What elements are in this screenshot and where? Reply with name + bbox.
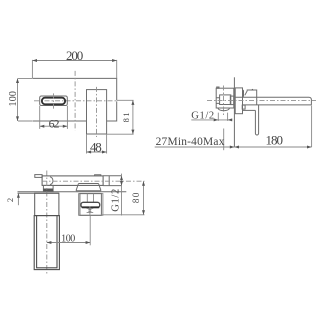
top view: valve body tube: [42, 176, 103, 186]
dimension 180: extension line at spout tip: [311, 105, 313, 147]
front view: vertical center line: [74, 71, 76, 131]
front view: handle body rectangle: [87, 90, 107, 134]
svg-text:100: 100: [61, 233, 75, 244]
dimension 81: dimension line: [132, 100, 134, 134]
top view: outlet mini dimension arrows: [89, 207, 91, 216]
side view: body bottom edge: [243, 109, 256, 111]
top view: spout tube outer walls: [34, 216, 59, 270]
dimension 81: extension lines: [107, 100, 134, 134]
dimension 62: dimension line: [40, 125, 68, 127]
svg-text:G1/2: G1/2: [191, 110, 214, 121]
side view: valve vertical center line: [223, 86, 225, 117]
svg-text:G1/2: G1/2: [111, 189, 122, 212]
dimension 100: arrows: [16, 78, 19, 121]
side view: concealed valve cartridge: [220, 95, 231, 105]
svg-text:100: 100: [8, 91, 19, 106]
dimension 100 (top): dimension line: [47, 242, 90, 244]
dimension 180: arrows: [234, 146, 311, 149]
top view: handle skirt trapezoid: [76, 184, 101, 191]
dimension 27Min-40Max: arrow at wall: [230, 146, 235, 149]
side view: spout bar top and bottom: [235, 97, 311, 105]
side view: valve top lug: [217, 87, 219, 88]
top view: outlet mini dimension ticks: [87, 209, 94, 213]
side view: wall line: [233, 77, 235, 147]
top view: cartridge shaft sides: [87, 194, 93, 202]
top view: handle outer shell: [79, 194, 103, 216]
dimension G1/2 (side): dimension line with outside arrows: [191, 119, 232, 121]
top view: G1/2 inlet nipple outline: [103, 176, 121, 186]
dimension 100: dimension line: [18, 78, 33, 121]
svg-text:80: 80: [131, 192, 141, 203]
front view: horizontal spout axis center line: [34, 100, 116, 102]
top view: inlet axis center line: [42, 180, 145, 182]
side view: cap top marker: [251, 89, 254, 90]
front view: spout outer outline: [40, 96, 68, 106]
side view: concealed valve outer body: [216, 88, 234, 108]
dimension 2: arrow: [17, 193, 20, 198]
svg-text:62: 62: [49, 116, 60, 130]
side view: valve bottom arc: [218, 108, 230, 111]
top view: spout pivot boss arc: [50, 177, 53, 185]
svg-text:81: 81: [121, 112, 131, 122]
svg-text:27Min-40Max: 27Min-40Max: [156, 136, 225, 148]
top view: spout tube inner walls: [37, 216, 57, 268]
dimension 27Min-40Max: dimension line: [155, 146, 235, 148]
dimension 80: bottom extension line: [101, 214, 145, 216]
front view: mounting box outline: [32, 78, 116, 121]
top view: handle lever heavy bottom edge: [82, 206, 99, 208]
top view: spout connection block: [43, 185, 53, 191]
dimension 80: arrows: [142, 181, 145, 215]
top view: handle lever (stadium): [81, 202, 100, 207]
side view: escutcheon plate: [235, 88, 242, 114]
top view: vertical center line of spout: [46, 171, 48, 275]
dimension 48: dimension line: [87, 151, 107, 153]
side view: spout center line: [207, 99, 316, 101]
side view: faucet body and cartridge cap: [243, 90, 257, 105]
dimension 80: dimension line: [143, 181, 145, 215]
dimension 81: arrows: [131, 100, 134, 134]
top view: escutcheon front edge line: [18, 192, 59, 194]
dimension 62: extension lines: [40, 106, 68, 129]
dimension 180: dimension line: [234, 146, 311, 148]
side view: wall connection block: [230, 96, 234, 105]
dimension 62: arrows: [40, 125, 68, 128]
side view: lever handle hanging down: [255, 105, 258, 135]
front view: spout opening (thick stadium): [42, 98, 65, 105]
dimension 100 (top): arrows: [47, 241, 90, 244]
dimension 48: extension lines: [87, 134, 107, 154]
top view: body step near right: [95, 175, 101, 176]
dimension G1/2 (top): vertical line and arrows: [121, 174, 123, 216]
side view: spout tip rounded end: [309, 97, 311, 105]
dimension 27Min-40Max: min embed extension line: [223, 129, 225, 151]
svg-text:180: 180: [265, 133, 283, 148]
svg-text:2: 2: [5, 198, 15, 202]
top view: wall line: [18, 191, 127, 193]
front view: spout vertical center line: [53, 93, 55, 108]
front view: handle center line: [96, 87, 98, 137]
top view: valve mounting tab: [35, 175, 42, 178]
top view: escutcheon plate: [35, 193, 59, 215]
dimension 200: arrows: [32, 59, 116, 62]
svg-text:200: 200: [66, 48, 83, 63]
top view: handle outline: [80, 194, 102, 216]
dimension 100 (top): extension line: [89, 215, 91, 245]
svg-text:48: 48: [90, 139, 102, 154]
dimension 2: extension and dimension line: [17, 193, 19, 205]
side view: G1/2 inlet stub: [216, 98, 219, 104]
side view: handle attachment block: [242, 105, 245, 109]
dimension G1/2 (side): extension lines: [218, 113, 227, 121]
dimension 200: dimension line: [32, 60, 116, 79]
dimension 48: arrows: [87, 151, 107, 154]
